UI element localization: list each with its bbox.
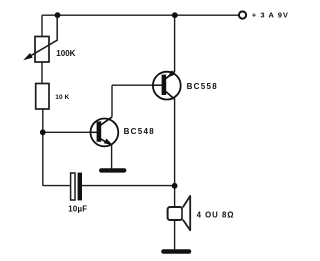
wire node A to Q1 base xyxy=(43,131,91,133)
wire capacitor right plate to node B xyxy=(82,185,175,187)
capacitor C1 10uF negative plate xyxy=(78,173,82,201)
resistor R1 10K xyxy=(36,84,49,110)
node rail-wiper junction xyxy=(55,12,61,18)
wire Q1 collector to Q2 base xyxy=(112,84,153,86)
ground (Q1 emitter) xyxy=(101,168,124,172)
wire left vertical to potentiometer top xyxy=(41,15,43,36)
wire Q1 emitter to ground xyxy=(111,145,113,169)
wire top supply rail xyxy=(42,14,239,16)
svg-text:BC558: BC558 xyxy=(187,82,218,91)
wire to capacitor left plate xyxy=(43,185,71,187)
node B (cap/speaker junction) xyxy=(172,183,178,189)
wire Q2 emitter to supply rail xyxy=(174,15,176,71)
svg-text:+ 3 A 9V: + 3 A 9V xyxy=(252,10,289,19)
ground (speaker) xyxy=(164,249,190,254)
svg-text:10µF: 10µF xyxy=(68,204,87,213)
speaker LS1 xyxy=(168,196,191,230)
battery terminal xyxy=(239,11,246,18)
wire node A down left side xyxy=(42,132,44,185)
wire Q1 collector vertical xyxy=(111,85,113,116)
potentiometer P1 100K xyxy=(23,15,57,62)
transistor Q2 BC558 xyxy=(153,70,181,99)
capacitor C1 10uF positive plate xyxy=(71,173,75,200)
svg-text:4 OU 8Ω: 4 OU 8Ω xyxy=(197,210,235,219)
wire potentiometer to 10K resistor xyxy=(41,62,43,84)
wire 10K resistor to node A xyxy=(42,109,44,132)
transistor Q1 BC548 xyxy=(91,117,119,146)
node A (R1/base/cap junction) xyxy=(40,129,46,135)
svg-text:100K: 100K xyxy=(56,49,75,58)
wire Q2 collector down through node B to ground xyxy=(174,100,176,251)
node rail-Q2-emitter junction xyxy=(172,12,178,18)
svg-text:BC548: BC548 xyxy=(124,127,155,136)
svg-text:10 K: 10 K xyxy=(55,94,69,101)
